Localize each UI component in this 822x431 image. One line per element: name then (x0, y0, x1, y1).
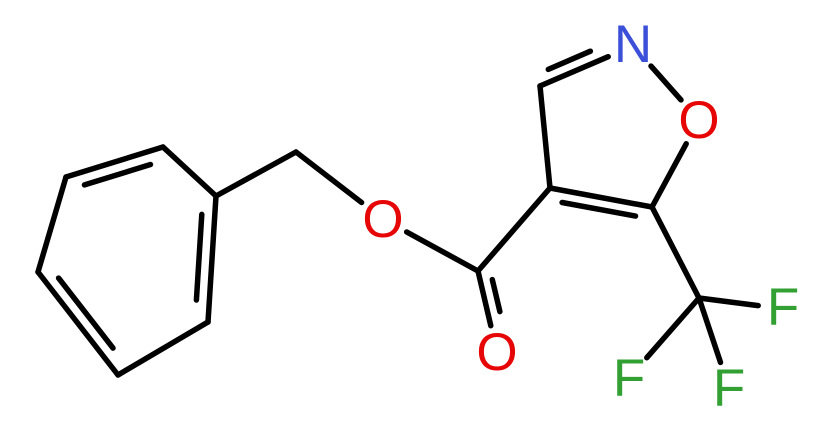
svg-text:O: O (476, 323, 517, 382)
svg-text:O: O (362, 190, 403, 249)
svg-text:O: O (678, 91, 719, 150)
svg-text:N: N (614, 15, 652, 74)
svg-text:F: F (713, 359, 745, 418)
svg-text:F: F (767, 278, 799, 337)
svg-text:F: F (613, 349, 645, 408)
